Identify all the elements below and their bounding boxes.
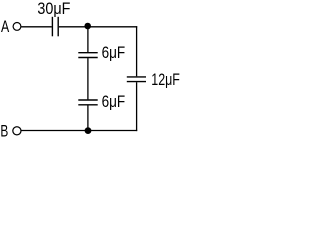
right branch wire top (136, 26, 138, 76)
wire B to bottom junction (21, 130, 88, 132)
wire between 6uF caps (87, 58, 89, 99)
bottom wire junction to right corner (88, 130, 137, 132)
svg-text:6μF: 6μF (102, 93, 126, 111)
terminal circle A (13, 23, 21, 31)
capacitor 6uF upper plates (78, 52, 97, 54)
wire A to C1 (21, 26, 52, 28)
svg-text:6μF: 6μF (102, 44, 126, 62)
wire junction down to 6uF cap (87, 27, 89, 52)
terminal circle B (13, 127, 21, 135)
junction dot top (84, 23, 91, 30)
junction dot bottom (85, 127, 92, 134)
svg-text:A: A (1, 18, 9, 36)
svg-text:12μF: 12μF (151, 71, 180, 89)
capacitor 6uF lower plates (78, 99, 97, 101)
right branch wire bottom (136, 82, 138, 131)
svg-text:B: B (0, 123, 8, 141)
top wire junction to right corner (88, 26, 137, 28)
svg-text:30μF: 30μF (37, 0, 70, 18)
capacitor 12uF plates (127, 76, 146, 78)
wire C1 to top junction (59, 26, 88, 28)
capacitor 30uF plates (51, 17, 53, 37)
wire 6uF lower to bottom junction (87, 105, 89, 130)
